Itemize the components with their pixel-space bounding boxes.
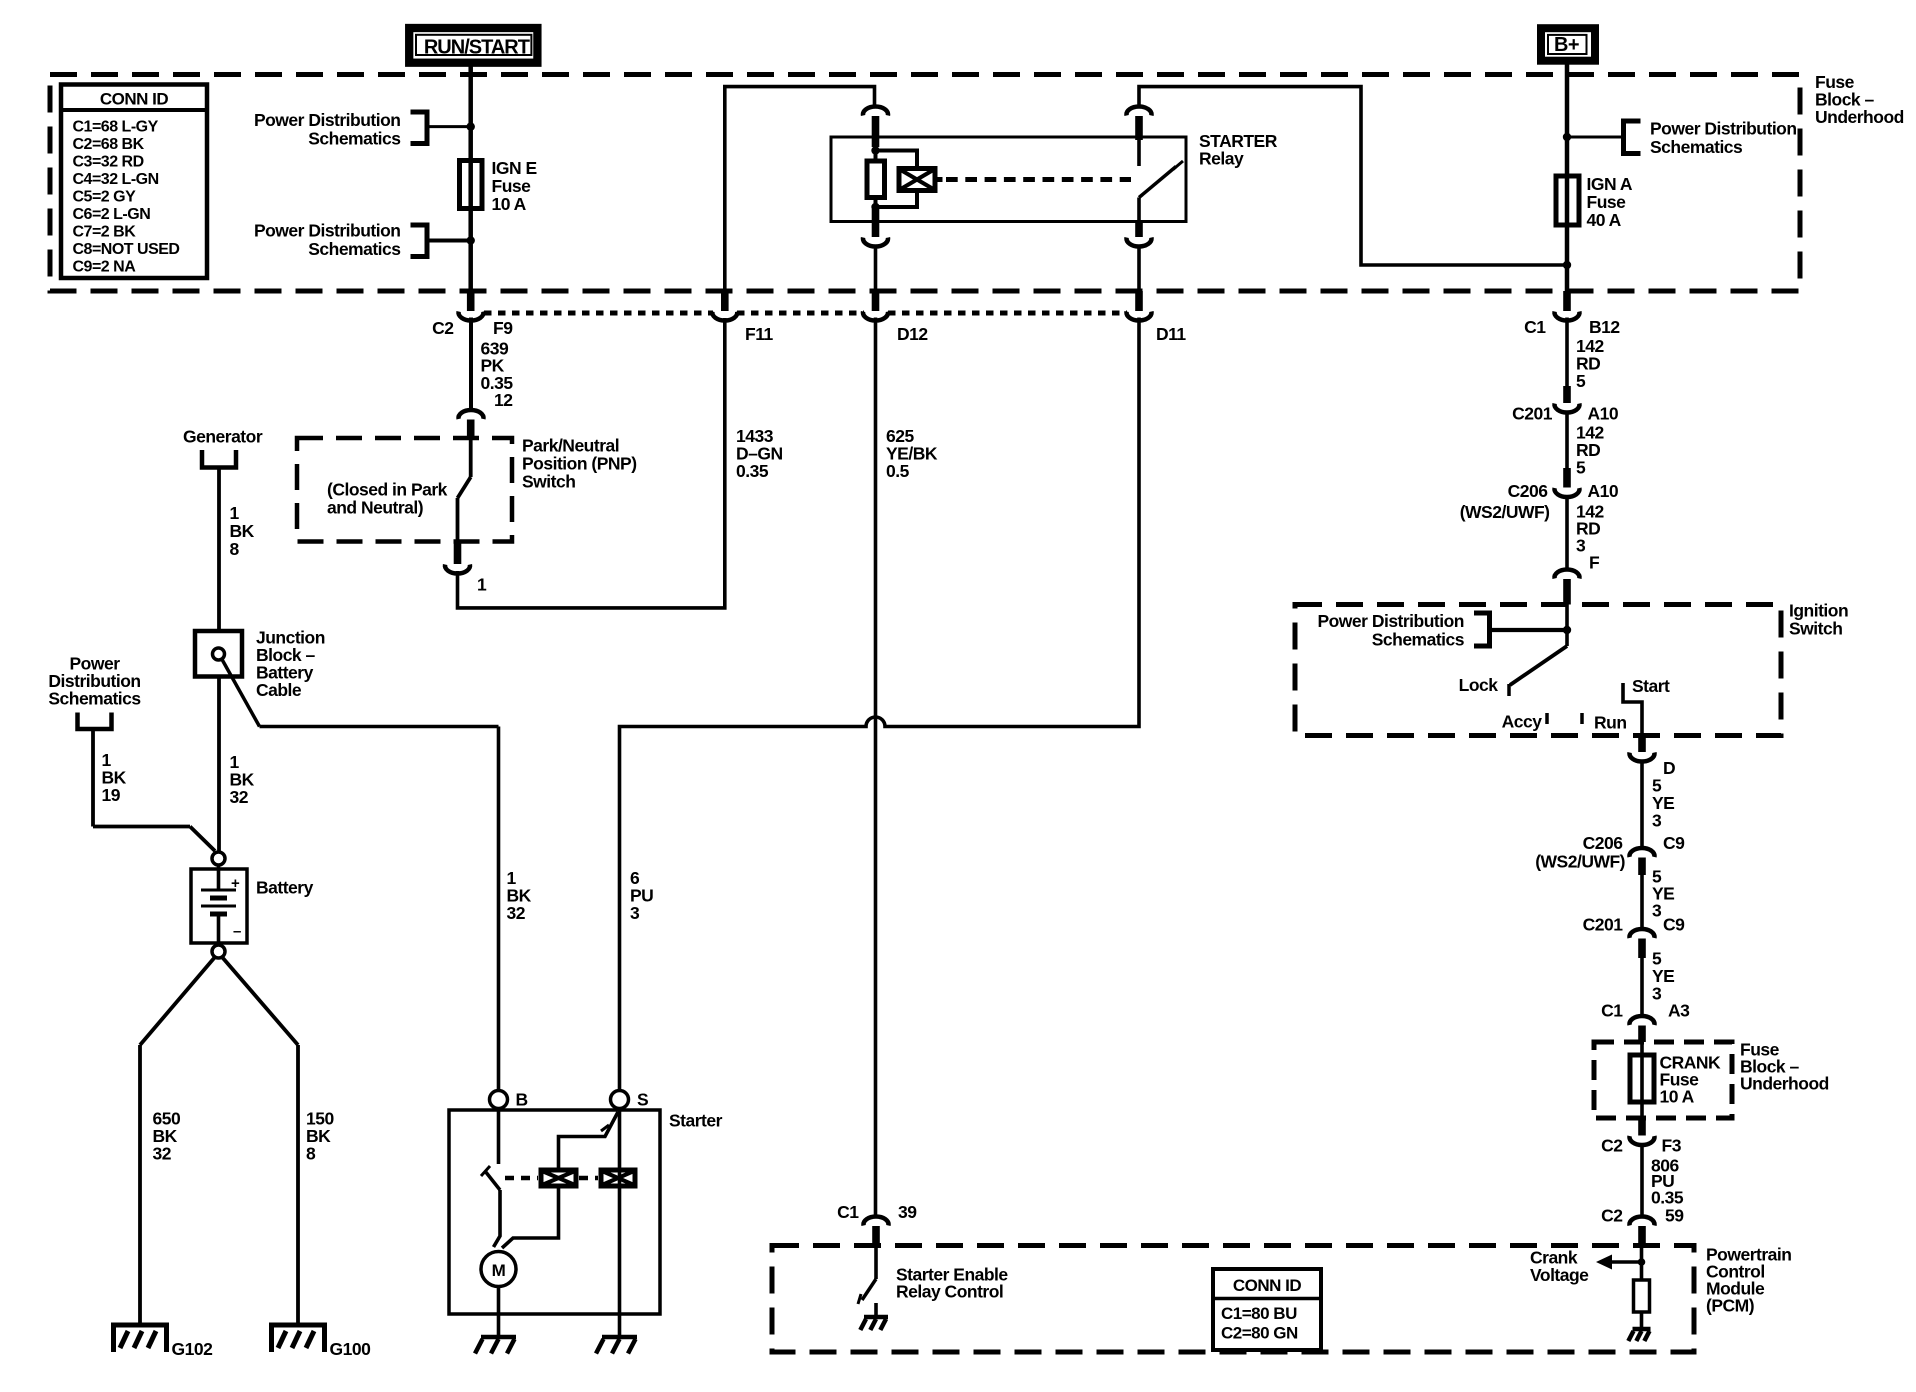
svg-text:5: 5 xyxy=(1576,458,1586,478)
svg-text:Power Distribution: Power Distribution xyxy=(1650,119,1797,139)
svg-text:Accy: Accy xyxy=(1502,712,1543,732)
svg-text:Ignition: Ignition xyxy=(1789,601,1848,621)
svg-text:10 A: 10 A xyxy=(1660,1087,1695,1107)
svg-text:CONN ID: CONN ID xyxy=(100,90,169,109)
svg-text:A10: A10 xyxy=(1588,404,1619,424)
svg-text:Start: Start xyxy=(1632,676,1670,696)
svg-text:C206: C206 xyxy=(1583,833,1624,853)
svg-text:C7=2 BK: C7=2 BK xyxy=(73,224,137,241)
svg-text:12: 12 xyxy=(494,390,513,410)
svg-text:G100: G100 xyxy=(330,1339,372,1359)
svg-text:Fuse: Fuse xyxy=(492,176,532,196)
svg-text:Park/Neutral: Park/Neutral xyxy=(522,436,619,456)
svg-text:F: F xyxy=(1589,553,1600,573)
svg-text:B: B xyxy=(516,1090,528,1110)
svg-text:C2=68 BK: C2=68 BK xyxy=(73,136,145,153)
svg-text:(Closed in Park: (Closed in Park xyxy=(327,480,448,500)
svg-text:(PCM): (PCM) xyxy=(1706,1296,1754,1316)
svg-text:C1=80 BU: C1=80 BU xyxy=(1221,1304,1297,1323)
svg-text:M: M xyxy=(492,1261,506,1280)
svg-text:Relay Control: Relay Control xyxy=(896,1282,1003,1302)
svg-text:B12: B12 xyxy=(1589,317,1620,337)
svg-text:C1: C1 xyxy=(837,1202,859,1222)
svg-text:32: 32 xyxy=(230,787,249,807)
svg-text:8: 8 xyxy=(306,1144,316,1164)
svg-text:Schematics: Schematics xyxy=(48,689,141,709)
svg-text:0.5: 0.5 xyxy=(886,461,910,481)
svg-text:32: 32 xyxy=(507,903,526,923)
svg-text:Cable: Cable xyxy=(256,680,302,700)
svg-text:Schematics: Schematics xyxy=(308,129,401,149)
svg-text:C1: C1 xyxy=(1601,1001,1623,1021)
svg-text:Run: Run xyxy=(1594,713,1627,733)
svg-text:and Neutral): and Neutral) xyxy=(327,498,423,518)
svg-text:Underhood: Underhood xyxy=(1815,107,1904,127)
svg-text:CONN ID: CONN ID xyxy=(1233,1276,1302,1295)
svg-text:Schematics: Schematics xyxy=(1650,137,1743,157)
svg-text:C1: C1 xyxy=(1524,317,1546,337)
svg-text:3: 3 xyxy=(630,903,640,923)
svg-text:C201: C201 xyxy=(1512,404,1553,424)
svg-text:1: 1 xyxy=(230,503,240,523)
svg-text:3: 3 xyxy=(1652,984,1662,1004)
svg-text:19: 19 xyxy=(102,785,121,805)
svg-text:RUN/START: RUN/START xyxy=(424,37,530,59)
svg-text:F9: F9 xyxy=(493,318,513,338)
svg-text:D11: D11 xyxy=(1156,324,1186,344)
svg-text:C2: C2 xyxy=(1601,1136,1623,1156)
svg-text:5: 5 xyxy=(1576,371,1586,391)
svg-text:BK: BK xyxy=(230,521,255,541)
svg-text:32: 32 xyxy=(153,1144,172,1164)
svg-text:Voltage: Voltage xyxy=(1530,1265,1589,1285)
svg-text:0.35: 0.35 xyxy=(736,461,769,481)
svg-text:Switch: Switch xyxy=(1789,619,1842,639)
svg-text:F11: F11 xyxy=(745,324,773,344)
svg-text:C8=NOT USED: C8=NOT USED xyxy=(73,241,180,258)
svg-text:F3: F3 xyxy=(1662,1136,1682,1156)
svg-text:Schematics: Schematics xyxy=(308,239,401,259)
svg-text:S: S xyxy=(637,1090,648,1110)
svg-text:(WS2/UWF): (WS2/UWF) xyxy=(1460,502,1550,522)
svg-text:D: D xyxy=(1663,758,1675,778)
svg-text:59: 59 xyxy=(1665,1206,1684,1226)
svg-text:Power Distribution: Power Distribution xyxy=(254,110,401,130)
svg-text:Power Distribution: Power Distribution xyxy=(1317,611,1464,631)
svg-text:B+: B+ xyxy=(1554,34,1579,56)
svg-text:3: 3 xyxy=(1576,536,1586,556)
svg-text:D12: D12 xyxy=(897,324,928,344)
svg-text:Battery: Battery xyxy=(256,878,314,898)
svg-text:10 A: 10 A xyxy=(492,194,527,214)
svg-text:Relay: Relay xyxy=(1199,149,1244,169)
svg-text:39: 39 xyxy=(898,1202,917,1222)
svg-text:C2: C2 xyxy=(432,318,454,338)
svg-text:Underhood: Underhood xyxy=(1740,1074,1829,1094)
svg-text:C5=2 GY: C5=2 GY xyxy=(73,189,137,206)
svg-text:Lock: Lock xyxy=(1459,675,1499,695)
svg-text:G102: G102 xyxy=(172,1339,214,1359)
svg-text:1: 1 xyxy=(477,575,487,595)
svg-text:C2: C2 xyxy=(1601,1206,1623,1226)
svg-text:C206: C206 xyxy=(1508,481,1549,501)
svg-text:0.35: 0.35 xyxy=(1651,1188,1684,1208)
svg-text:Starter: Starter xyxy=(669,1111,723,1131)
svg-text:C6=2 L-GN: C6=2 L-GN xyxy=(73,206,151,223)
svg-text:A10: A10 xyxy=(1588,481,1619,501)
svg-text:3: 3 xyxy=(1652,901,1662,921)
svg-text:8: 8 xyxy=(230,539,240,559)
svg-text:C1=68 L-GY: C1=68 L-GY xyxy=(73,119,159,136)
svg-text:Power Distribution: Power Distribution xyxy=(254,221,401,241)
svg-text:IGN A: IGN A xyxy=(1587,174,1633,194)
svg-text:C9: C9 xyxy=(1663,833,1685,853)
svg-text:(WS2/UWF): (WS2/UWF) xyxy=(1535,852,1625,872)
svg-text:40 A: 40 A xyxy=(1587,210,1622,230)
svg-text:Fuse: Fuse xyxy=(1587,192,1627,212)
svg-text:C9: C9 xyxy=(1663,915,1685,935)
svg-text:A3: A3 xyxy=(1668,1001,1690,1021)
svg-text:Switch: Switch xyxy=(522,472,575,492)
svg-text:C9=2 NA: C9=2 NA xyxy=(73,259,137,276)
svg-text:3: 3 xyxy=(1652,811,1662,831)
svg-text:IGN E: IGN E xyxy=(492,158,537,178)
svg-text:Schematics: Schematics xyxy=(1372,630,1465,650)
svg-text:C4=32 L-GN: C4=32 L-GN xyxy=(73,171,159,188)
svg-text:–: – xyxy=(233,923,241,940)
svg-text:Position (PNP): Position (PNP) xyxy=(522,454,637,474)
svg-text:C201: C201 xyxy=(1583,915,1624,935)
svg-text:Generator: Generator xyxy=(183,427,263,447)
svg-text:C3=32 RD: C3=32 RD xyxy=(73,154,144,171)
svg-text:C2=80 GN: C2=80 GN xyxy=(1221,1324,1298,1343)
